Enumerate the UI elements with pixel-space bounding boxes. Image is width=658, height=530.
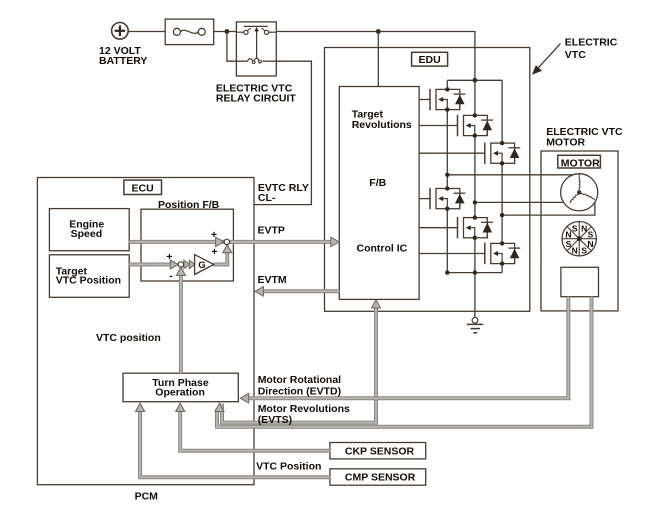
motor connector box xyxy=(561,267,599,296)
transistor Q5 (low side phase B) xyxy=(458,215,493,240)
fuse F1 xyxy=(165,19,214,44)
svg-text:Motor Rotational: Motor Rotational xyxy=(258,374,341,386)
wire target VTC position to summing node 2 xyxy=(129,260,178,269)
motor enclosure box xyxy=(541,151,618,311)
svg-text:PCM: PCM xyxy=(135,491,159,503)
transistor Q4 (low side phase A) xyxy=(430,186,465,211)
node bottom rail left xyxy=(445,270,449,274)
CKP SENSOR box xyxy=(330,443,426,459)
wire summing node 2 to amp G (double chevron) xyxy=(184,260,195,268)
wire rail C Q6 source down xyxy=(501,264,503,273)
EDU enclosure box xyxy=(325,48,530,312)
svg-text:VTC: VTC xyxy=(565,49,586,61)
svg-text:Control IC: Control IC xyxy=(357,243,408,255)
svg-text:MOTOR: MOTOR xyxy=(546,136,585,148)
svg-text:+: + xyxy=(166,251,172,263)
wire CKP sensor to turn phase xyxy=(176,403,330,450)
wire phase A to motor xyxy=(447,174,579,176)
summing node 2 xyxy=(178,262,183,267)
wire gate Q6 xyxy=(419,253,485,255)
svg-text:CKP SENSOR: CKP SENSOR xyxy=(345,445,415,457)
wire turn phase command to control IC xyxy=(222,300,381,423)
Target VTC Position box xyxy=(49,255,129,297)
wire rail B Q5 source to ground xyxy=(474,238,476,318)
relay K1 (electric VTC relay) xyxy=(236,22,276,76)
svg-text:G: G xyxy=(198,260,205,271)
battery B1 (12 volt battery) xyxy=(112,23,129,40)
wire engine speed to summing node / EVTP to EDU xyxy=(129,237,339,246)
node phase A tap xyxy=(445,173,449,177)
wire rail C top to Q3 drain xyxy=(501,80,503,143)
ground xyxy=(467,317,483,332)
svg-text:EDU: EDU xyxy=(419,54,441,66)
svg-text:N: N xyxy=(572,245,578,255)
wire rail A drain stub Q1 xyxy=(446,80,448,89)
wire EVTC RLY CL- (relay coil to ECU) xyxy=(254,61,311,204)
svg-text:RELAY CIRCUIT: RELAY CIRCUIT xyxy=(216,92,297,104)
wire rail B top to Q2 drain xyxy=(474,80,476,115)
MOTOR label box xyxy=(558,155,601,168)
svg-text:EVTM: EVTM xyxy=(258,274,287,286)
wire phase C to motor xyxy=(502,200,595,216)
wire gate Q3 xyxy=(419,152,485,154)
wire top drain rail xyxy=(447,79,502,81)
wire gate Q5 xyxy=(419,227,457,229)
svg-text:S: S xyxy=(572,224,578,234)
svg-text:ECU: ECU xyxy=(132,183,154,195)
transistor Q2 (high side phase B) xyxy=(458,113,493,138)
svg-text:CL-: CL- xyxy=(258,192,276,204)
svg-text:Revolutions: Revolutions xyxy=(352,119,412,131)
node: EDU supply junction xyxy=(376,29,381,34)
svg-text:Position F/B: Position F/B xyxy=(158,199,220,211)
wire rail B Q2 source to Q5 drain xyxy=(474,136,476,218)
node bottom rail center xyxy=(473,270,477,274)
motor stator (3-phase winding) xyxy=(561,174,598,211)
wire rail A Q1 source to Q4 drain xyxy=(446,110,448,189)
CMP SENSOR box xyxy=(330,469,426,485)
ECU / PCM enclosure box xyxy=(37,178,254,485)
wire gate Q1 xyxy=(419,99,430,101)
svg-text:F/B: F/B xyxy=(369,177,386,189)
op-amp G xyxy=(195,255,214,275)
Engine Speed box xyxy=(49,209,129,251)
EDU label box xyxy=(412,52,448,66)
motor rotor (magnet N/S) xyxy=(562,222,596,256)
wire relay to EDU power rail xyxy=(276,32,475,81)
wire VTC position feedback (turn phase to summing node 2) xyxy=(176,267,185,373)
wire junction to relay coil xyxy=(227,32,237,62)
node on top rail xyxy=(473,78,478,83)
wire junction to control block xyxy=(377,32,379,87)
svg-text:S: S xyxy=(581,245,587,255)
svg-text:N: N xyxy=(581,224,587,234)
svg-text:EVTP: EVTP xyxy=(258,225,285,237)
wire fuse to relay xyxy=(214,31,237,33)
wire CMP sensor (VTC position) to turn phase xyxy=(136,403,330,477)
svg-text:(EVTS): (EVTS) xyxy=(258,414,292,426)
transistor Q1 (high side phase A) xyxy=(430,87,465,112)
svg-text:ELECTRIC: ELECTRIC xyxy=(565,37,618,49)
transistor Q3 (high side phase C) xyxy=(485,141,520,166)
wire phase B to motor xyxy=(475,201,570,203)
node: battery junction xyxy=(225,29,230,34)
svg-text:VTC Position: VTC Position xyxy=(256,460,321,472)
svg-text:+: + xyxy=(211,229,217,241)
node phase B tap xyxy=(473,200,477,204)
node phase C tap xyxy=(500,213,504,217)
svg-text:BATTERY: BATTERY xyxy=(99,55,147,67)
svg-text:VTC Position: VTC Position xyxy=(56,275,121,287)
wire EVTS motor revolutions (motor to turn phase) xyxy=(215,297,592,427)
svg-text:Speed: Speed xyxy=(71,228,103,240)
svg-text:VTC position: VTC position xyxy=(96,332,161,344)
Position F/B box xyxy=(141,209,233,281)
wire EVTM from EDU to ECU xyxy=(255,287,339,296)
wire battery to fuse xyxy=(128,31,165,33)
wire EVTD motor rotational direction (motor to turn phase) xyxy=(240,297,568,403)
summing node 1 xyxy=(224,239,229,244)
svg-text:MOTOR: MOTOR xyxy=(561,158,600,170)
control block (Target Revolutions / F/B / Control IC) U1 xyxy=(339,87,419,300)
wire source bottom rail xyxy=(447,272,502,274)
transistor Q6 (low side phase C) xyxy=(485,241,520,266)
svg-text:Direction (EVTD): Direction (EVTD) xyxy=(258,385,341,397)
svg-text:-: - xyxy=(169,270,173,282)
ECU label box xyxy=(124,180,162,194)
wire gate Q4 xyxy=(419,198,430,200)
svg-text:CMP SENSOR: CMP SENSOR xyxy=(345,472,416,484)
svg-text:+: + xyxy=(211,246,217,258)
ELECTRIC VTC pointer arrow xyxy=(532,44,561,75)
wire amp G output to summing node 1 xyxy=(213,245,231,265)
rotor pole letters xyxy=(565,224,593,256)
svg-text:N: N xyxy=(587,239,593,249)
wire rail A Q4 source down xyxy=(446,209,448,273)
svg-text:Operation: Operation xyxy=(155,386,205,398)
Turn Phase Operation box xyxy=(123,373,238,402)
wire gate Q2 xyxy=(419,125,457,127)
wire rail C Q3 source to Q6 drain xyxy=(501,163,503,243)
